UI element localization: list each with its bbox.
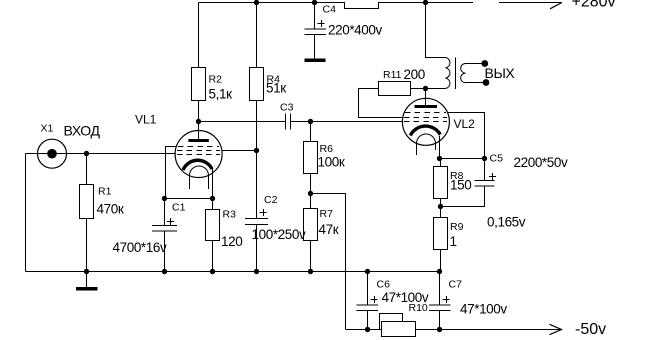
resistor R6 <box>304 142 318 174</box>
svg-text:C6: C6 <box>377 279 391 291</box>
capacitor C5 plates <box>475 181 495 187</box>
node: ground/C2 <box>254 269 259 274</box>
wire: R6 to R7 link <box>310 174 312 208</box>
node: ground/C6 <box>365 269 370 274</box>
wire: -50v line <box>346 329 562 331</box>
svg-text:VL1: VL1 <box>135 113 157 127</box>
wire: VL2 screen to cathode node <box>448 113 485 159</box>
wire: R4 bottom lead crossing anode line to screen node <box>256 101 258 151</box>
tube VL2 <box>402 98 449 155</box>
svg-text:51к: 51к <box>266 81 286 96</box>
VL2 envelope circle <box>402 98 449 145</box>
ground bar under C4 <box>305 59 326 63</box>
wire: VL1 screen lead to R4/C2 node <box>222 150 257 152</box>
svg-text:2200*50v: 2200*50v <box>514 155 569 170</box>
node: VL1 anode <box>196 119 201 124</box>
svg-text:1: 1 <box>450 234 457 249</box>
svg-text:C3: C3 <box>280 102 294 114</box>
svg-text:200: 200 <box>404 67 425 82</box>
polarity plus C6 <box>371 296 378 303</box>
VL1 cathode arc <box>183 160 212 170</box>
wire: X1 ground side drop <box>25 154 27 272</box>
resistor R1 <box>80 185 94 219</box>
svg-text:C4: C4 <box>323 4 337 16</box>
wire: C4 bottom lead to chassis bar <box>314 35 316 59</box>
svg-text:5,1к: 5,1к <box>209 87 233 102</box>
wire: transformer primary drop from rail <box>426 3 446 58</box>
VL2 grid dashes <box>404 113 447 122</box>
wire: R3 top lead <box>212 199 214 210</box>
wire: input line X1 to VL1 grid <box>26 153 176 155</box>
wire: C1 bottom lead to ground rail <box>164 231 166 272</box>
wire: C3 right plate to VL2 grid (node with R6) <box>291 121 403 123</box>
wire: C6 top lead <box>367 272 369 306</box>
polarity plus C2 <box>260 209 267 216</box>
wire: R1 bottom lead to ground rail <box>86 219 88 272</box>
wire: R8 bottom lead <box>440 199 442 218</box>
wire: R10 wiper tap loop <box>380 314 403 330</box>
+280v arrowhead <box>550 3 562 9</box>
VL2 heater <box>417 143 436 155</box>
polarity plus C4 <box>318 20 325 27</box>
node: VL1 cathode/R3 <box>210 196 215 201</box>
svg-text:220*400v: 220*400v <box>328 23 383 38</box>
svg-text:+280v: +280v <box>572 0 616 11</box>
wire: VL2 anode lead <box>425 89 427 106</box>
wire: C5 top lead <box>484 159 486 181</box>
input connector X1 <box>38 139 67 168</box>
node: -50v/C7 <box>437 327 442 332</box>
svg-text:470к: 470к <box>97 202 124 217</box>
VL1 anode plate bar <box>188 139 208 142</box>
wire: transformer primary bottom to R11 and anode node <box>411 88 446 90</box>
wire: C5 bottom lead to R8/R9 node <box>441 186 485 207</box>
-50v arrowhead <box>550 324 562 334</box>
svg-text:ВХОД: ВХОД <box>64 123 101 139</box>
wire: C2 top lead from screen node <box>256 151 258 219</box>
svg-text:C1: C1 <box>172 202 186 214</box>
wire: C1 top lead <box>164 199 166 226</box>
node: C1/grid3 loop <box>162 196 167 201</box>
svg-text:X1: X1 <box>41 123 54 135</box>
svg-text:0,165v: 0,165v <box>487 215 526 230</box>
capacitors <box>152 29 495 311</box>
transformer T1 secondary winding <box>461 64 466 83</box>
wire: ground symbol stub <box>86 272 88 288</box>
wire: C7 bottom lead <box>439 311 441 330</box>
svg-text:VL2: VL2 <box>454 117 476 131</box>
node: ground/R1 <box>84 269 89 274</box>
node: ground/R7 <box>308 269 313 274</box>
wire: secondary top lead <box>466 63 483 65</box>
wire: R2 top lead from rail <box>198 3 200 68</box>
wire: VL2 cathode lead <box>439 136 441 159</box>
VL1 heater <box>190 175 209 189</box>
capacitor C2 plates <box>245 219 268 225</box>
node: ground/R3 <box>210 269 215 274</box>
node: rail/C4 <box>312 0 317 5</box>
wire: C2 bottom lead to ground rail <box>256 225 258 272</box>
resistor R3 <box>206 210 220 241</box>
VL2 cathode arc <box>410 126 440 135</box>
svg-text:ВЫХ: ВЫХ <box>485 65 516 81</box>
svg-text:R6: R6 <box>320 143 334 155</box>
capacitor C7 plates <box>429 305 451 311</box>
svg-text:C5: C5 <box>490 153 504 165</box>
node: C5 top <box>482 156 487 161</box>
VL2 anode plate bar <box>415 105 438 108</box>
wire: VL2 cathode node line <box>440 158 485 160</box>
capacitor C3 plates <box>286 114 291 130</box>
node: VL1 screen / R4 / C2 <box>254 148 259 153</box>
svg-text:4700*16v: 4700*16v <box>113 240 168 255</box>
svg-text:R3: R3 <box>223 209 237 221</box>
wire: +280v arrow line segment <box>499 2 561 4</box>
svg-text:120: 120 <box>221 234 242 249</box>
resistor R9 <box>434 218 448 250</box>
svg-text:R1: R1 <box>98 186 112 198</box>
node: VL2 anode/R11/primary <box>423 86 428 91</box>
capacitor C6 plates <box>357 305 379 311</box>
resistor R4 <box>250 68 264 101</box>
node: ground/C1 <box>162 269 167 274</box>
wire: C6 bottom lead <box>367 311 369 330</box>
X1 center pin <box>47 149 57 159</box>
wire: VL1 grid3 loop to cathode node <box>166 147 177 199</box>
node: ground/C7/R9 <box>437 269 442 274</box>
svg-text:C2: C2 <box>264 194 278 206</box>
capacitor C4 plates <box>305 29 327 35</box>
wire: R6 top lead <box>310 122 312 142</box>
wire: C7 top lead <box>439 272 441 306</box>
svg-text:C7: C7 <box>449 279 463 291</box>
capacitor C1 plates <box>152 226 177 232</box>
wire: R7 bottom lead to ground rail <box>310 241 312 272</box>
svg-text:47к: 47к <box>319 222 339 237</box>
VL1 envelope circle <box>175 131 222 178</box>
node: R8/R9/C5 bottom <box>438 204 443 209</box>
resistors <box>80 68 448 337</box>
svg-text:R11: R11 <box>383 69 402 81</box>
wire: R1 top lead <box>86 154 88 185</box>
svg-text:100к: 100к <box>318 155 345 170</box>
resistor R2 <box>192 68 206 101</box>
node: VL2 cathode <box>437 156 442 161</box>
node: rail/R4 <box>254 0 259 5</box>
wire: R8 top lead <box>440 159 442 167</box>
wire: C4 top lead from rail <box>314 3 316 30</box>
node: R6/R7 bias tap <box>308 191 313 196</box>
polarity plus C1 <box>167 218 174 225</box>
svg-text:R9: R9 <box>450 221 464 233</box>
wire: VL1 anode to C3 left plate <box>199 121 286 123</box>
output terminal top <box>481 60 488 67</box>
node: C3/R6/VL2 grid <box>308 119 313 124</box>
ground bar under X1 <box>76 287 98 291</box>
svg-text:150: 150 <box>450 178 471 193</box>
wire: transformer core line <box>455 58 457 90</box>
wire: R3 bottom lead to ground rail <box>212 241 214 272</box>
svg-text:R7: R7 <box>320 208 334 220</box>
transformer T1 primary winding <box>446 58 450 89</box>
svg-text:R2: R2 <box>209 74 223 86</box>
VL1 grid dashes <box>177 147 220 155</box>
resistor R11 <box>379 82 411 96</box>
wire: +280v top rail with jog <box>199 3 474 9</box>
svg-text:47*100v: 47*100v <box>460 302 507 317</box>
wire: R2 bottom lead to VL1 anode node <box>198 101 200 122</box>
node: -50v/C6 <box>365 327 370 332</box>
wire: R4 top lead from rail <box>256 3 258 68</box>
wire: R9 bottom lead to ground rail <box>440 250 442 272</box>
tube VL1 <box>175 131 222 190</box>
wire: secondary bottom lead <box>466 82 484 84</box>
wire: VL1 cathode node line <box>165 198 213 200</box>
wire: VL1 cathode lead <box>212 168 214 199</box>
node: input/R1 <box>84 151 89 156</box>
output terminal bottom <box>483 79 490 86</box>
resistor R8 <box>434 167 448 199</box>
node: rail/transformer <box>423 0 428 5</box>
resistor R10 (in -50v line) <box>382 322 416 337</box>
polarity plus C5 <box>489 173 496 180</box>
svg-text:100*250v: 100*250v <box>252 227 307 242</box>
wire: ground rail <box>26 271 440 273</box>
wire: VL1 anode lead <box>198 122 200 140</box>
X1 outer circle <box>38 139 67 168</box>
wire: R11 left lead loop to VL2 grid2 <box>359 89 404 118</box>
polarity plus C7 <box>443 296 450 303</box>
ground symbols <box>76 59 326 291</box>
svg-text:47*100v: 47*100v <box>382 290 429 305</box>
wire: bias branch from R6/R7 node down to -50v line <box>311 194 346 330</box>
resistor R7 <box>304 209 318 241</box>
svg-text:-50v: -50v <box>575 321 606 338</box>
